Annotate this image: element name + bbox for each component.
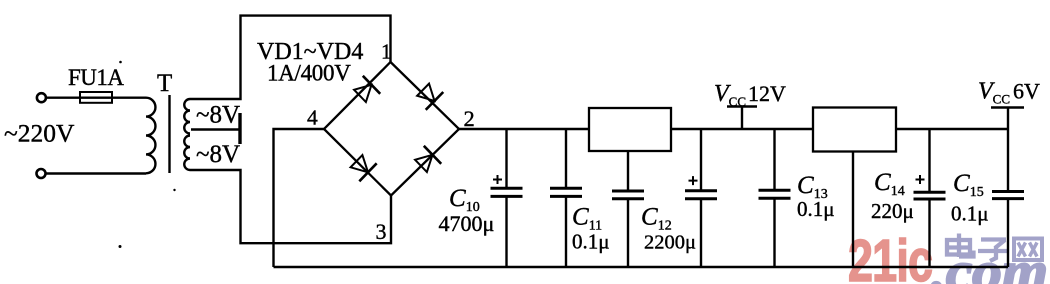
wire secondary top to node 1 (190, 16, 391, 99)
capacitor C13 leads (773, 129, 775, 267)
regulator U2 ground pin (852, 152, 854, 268)
svg-text:0.1μ: 0.1μ (797, 197, 835, 221)
svg-text:C12: C12 (641, 204, 672, 234)
capacitor C14 plus (916, 175, 925, 184)
svg-text:~8V: ~8V (196, 141, 240, 168)
capacitor C16 plus (689, 176, 698, 185)
capacitor C16 plates (685, 191, 717, 199)
watermark char zi (978, 240, 1009, 262)
capacitor C10 plates (491, 188, 523, 196)
Vcc6 bar (991, 106, 1024, 109)
wire node 4 to ground rail (274, 129, 325, 267)
wire top input (47, 96, 147, 98)
svg-text:2200μ: 2200μ (644, 232, 696, 254)
capacitor C12 plates (612, 191, 644, 199)
svg-text:VCC12V: VCC12V (714, 81, 786, 109)
regulator U2 box (813, 108, 896, 152)
watermark char dian (947, 234, 974, 258)
watermark char wang (1014, 239, 1042, 261)
Vcc12 stub (741, 107, 743, 130)
Vcc6 stub and capacitor C15 lead (1007, 108, 1009, 268)
svg-text:4700μ: 4700μ (439, 211, 495, 236)
transformer core (168, 95, 170, 173)
capacitor C11 leads (565, 129, 567, 267)
wire node 2 rail (459, 128, 589, 130)
capacitor C14 leads (928, 129, 930, 267)
diode VD upper-left (351, 76, 380, 105)
ground rail (274, 266, 1009, 268)
svg-text:0.1μ: 0.1μ (572, 230, 610, 254)
svg-text:1: 1 (381, 40, 392, 64)
center tap bar (238, 113, 241, 144)
svg-text:21ic: 21ic (848, 229, 932, 284)
svg-text:2: 2 (464, 106, 475, 131)
capacitor C16 leads (700, 129, 702, 267)
wire rail after U2 (896, 128, 1008, 130)
capacitor C15 plates (992, 192, 1024, 199)
speck bottom left (119, 245, 122, 248)
capacitor C14 plates (914, 192, 946, 199)
svg-text:C15: C15 (953, 170, 984, 200)
svg-text:0.1μ: 0.1μ (951, 202, 989, 226)
WATERMARK (848, 229, 1048, 284)
Vcc12 bar (727, 105, 757, 108)
svg-text:4: 4 (307, 106, 318, 130)
svg-text:FU1A: FU1A (68, 65, 124, 90)
svg-text:~8V: ~8V (196, 102, 240, 129)
capacitor C13 plates (759, 190, 791, 198)
transformer T primary winding (146, 98, 155, 174)
terminal circle bottom (37, 169, 46, 178)
svg-text:1A/400V: 1A/400V (267, 61, 351, 86)
capacitor C11 plates (550, 188, 582, 196)
capacitor C10 leads (505, 129, 507, 267)
regulator U1 box (589, 108, 671, 151)
transformer secondary winding upper (184, 99, 190, 134)
wire secondary bottom to node 3 (190, 170, 391, 243)
bridge diamond (324, 62, 459, 196)
wire bottom input (46, 172, 146, 174)
transformer secondary winding lower (184, 136, 190, 171)
wire rail between regulators (671, 128, 813, 130)
diode VD upper-right (414, 81, 443, 110)
svg-text:3: 3 (376, 219, 387, 244)
fuse FU1A (80, 92, 112, 103)
speck near core (173, 189, 175, 191)
capacitor C12 leads (627, 151, 629, 267)
terminal circle top (37, 93, 46, 102)
svg-text:220μ: 220μ (871, 199, 914, 223)
diode VD lower-right (412, 146, 441, 175)
capacitor C10 plus (493, 175, 502, 184)
svg-text:~220V: ~220V (4, 119, 75, 148)
svg-text:T: T (157, 70, 172, 97)
wire center tap (191, 128, 239, 130)
svg-text:C14: C14 (874, 169, 905, 199)
svg-text:VCC6V: VCC6V (978, 79, 1040, 107)
speck near FU1A (119, 61, 122, 64)
diode VD lower-left (348, 152, 377, 181)
